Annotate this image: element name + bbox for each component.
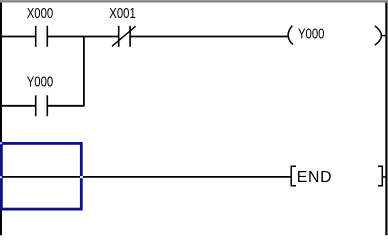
contact X000 [36,26,48,47]
wire: Y000 contact to branch junction [47,105,84,107]
contact Y000 [36,95,48,116]
instruction END right bracket [378,166,387,185]
branch junction vertical (parallel branch) [83,37,85,106]
right power rail [385,3,387,236]
label END [297,169,332,186]
contact X001 (normally closed) [112,26,136,47]
instruction END left bracket [291,166,296,185]
svg-text:Y000: Y000 [27,73,53,90]
toolbar bottom border [0,0,388,3]
wire: X001 to coil Y000 [130,36,288,38]
label X000 [27,4,53,21]
wire: left rail to END instruction [0,176,291,178]
svg-text:END: END [297,169,332,186]
wire: left rail to contact X000 [0,36,36,38]
coil Y000 right parenthesis [375,26,387,45]
label Y000 (coil operand) [298,25,324,42]
left power rail [0,3,2,236]
wire: X000 to X001 [47,36,118,38]
wire: left rail to contact Y000 [0,105,36,107]
svg-text:X000: X000 [27,4,53,21]
coil Y000 left parenthesis [288,26,293,45]
label X001 [109,4,135,21]
svg-text:Y000: Y000 [298,25,324,42]
svg-text:X001: X001 [109,4,135,21]
label Y000 [27,73,53,90]
cursor (blue selection rectangle) [0,142,83,209]
